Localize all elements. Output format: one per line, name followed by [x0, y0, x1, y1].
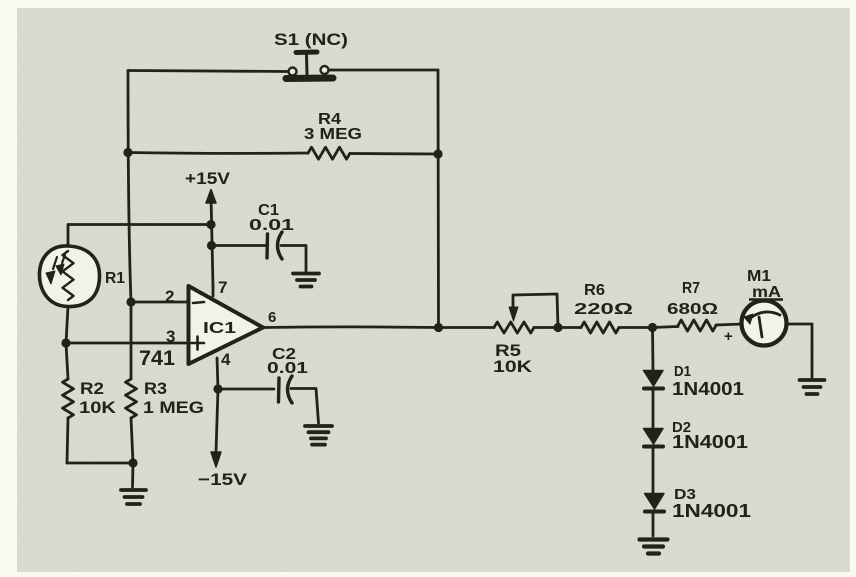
wire top loop right segment (S1 to right corner) — [329, 69, 438, 72]
label IC1 — [203, 320, 236, 337]
node output-feedback junction — [434, 323, 443, 332]
svg-text:+15V: +15V — [185, 169, 231, 188]
svg-text:1N4001: 1N4001 — [672, 432, 748, 452]
wire C2 branch — [218, 388, 274, 391]
resistor R6 220ohm zigzag — [581, 322, 619, 333]
label C1 value 0.01 — [249, 217, 294, 234]
ground meter M1 — [800, 380, 825, 394]
svg-text:1 MEG: 1 MEG — [143, 398, 204, 417]
pin label 6 — [268, 309, 276, 326]
svg-text:D1: D1 — [674, 363, 691, 380]
wire D2 to D3 — [652, 446, 655, 494]
label R7 value 680 ohm — [667, 301, 718, 318]
capacitor C2 symbol — [279, 376, 293, 403]
resistor R7 680ohm zigzag — [678, 320, 716, 331]
label R3 — [144, 379, 167, 398]
op-amp minus sign — [193, 302, 204, 303]
label C1 — [258, 202, 279, 219]
label R6 value 220 ohm — [574, 301, 633, 318]
wire pin 4 vertical to -15V — [216, 358, 218, 452]
wire op-amp output line — [263, 325, 494, 328]
photocell R1 body — [39, 246, 99, 307]
node C1 tap junction — [207, 241, 216, 250]
wire diode node to R7 — [652, 327, 678, 328]
svg-text:4: 4 — [221, 350, 231, 369]
photocell R1 internal element — [63, 251, 74, 300]
label C2 value 0.01 — [267, 360, 308, 377]
wire top loop left segment (S1 line left) — [128, 71, 288, 72]
node C2 tap junction — [213, 384, 222, 393]
potentiometer R5 wiper arm loop — [509, 294, 558, 328]
ground C2 — [305, 426, 332, 445]
label R3 value 1 MEG — [143, 398, 204, 417]
node diode branch junction — [648, 323, 657, 332]
capacitor C1 symbol — [267, 232, 282, 259]
svg-text:741: 741 — [139, 347, 175, 370]
pin label 4 — [221, 350, 231, 369]
wire right vertical (feedback down to output node) — [437, 70, 440, 328]
svg-text:−15V: −15V — [198, 470, 248, 489]
wire R1 bottom lead — [66, 307, 68, 344]
wire R5 to R6 — [534, 326, 581, 329]
label 3 MEG — [304, 126, 362, 143]
wire C2 to ground — [291, 389, 319, 424]
diode D1 1N4001 — [644, 371, 664, 389]
wire pin 2 input — [131, 301, 188, 304]
pin label 7 — [218, 278, 227, 297]
wire R1 top lead to +15V rail — [68, 225, 211, 247]
svg-text:R1: R1 — [105, 270, 125, 287]
label -15V — [198, 470, 248, 489]
wire R4 line right — [350, 152, 438, 155]
-15V supply arrow — [211, 452, 221, 467]
photocell R1 light arrow 1 — [46, 257, 57, 284]
wire diode chain top — [651, 328, 654, 372]
svg-text:7: 7 — [218, 278, 227, 297]
label D3 value 1N4001 — [672, 501, 751, 521]
photocell R1 light arrow 2 — [56, 255, 65, 275]
diode D2 1N4001 — [644, 429, 664, 447]
svg-text:220Ω: 220Ω — [574, 301, 633, 318]
wire left vertical (inverting input column) — [128, 71, 131, 380]
svg-text:R7: R7 — [682, 280, 700, 297]
node bottom rail junction — [128, 458, 137, 467]
label D3 — [674, 486, 696, 503]
node pin3-R1 junction — [61, 338, 70, 347]
label C2 — [272, 346, 296, 363]
label R7 — [682, 280, 700, 297]
svg-text:6: 6 — [268, 309, 276, 326]
svg-text:+: + — [724, 328, 733, 345]
svg-text:1N4001: 1N4001 — [672, 501, 751, 521]
resistor R4 3MEG zigzag — [308, 147, 350, 159]
label D1 — [674, 363, 691, 380]
wire C1 branch — [211, 244, 266, 247]
wire C1 to ground — [281, 246, 306, 272]
wire R6 to diode node — [619, 326, 652, 329]
label R2 value 10K — [79, 398, 117, 417]
resistor R3 1MEG zigzag — [126, 379, 137, 418]
label R5 value 10K — [493, 357, 533, 376]
svg-text:IC1: IC1 — [203, 320, 236, 337]
svg-text:3 MEG: 3 MEG — [304, 126, 362, 143]
svg-text:3: 3 — [166, 327, 175, 346]
node R1top-+15V junction — [206, 220, 215, 229]
wire R2 bottom lead — [67, 418, 68, 463]
wire R7 to meter — [716, 324, 742, 325]
potentiometer R5 10K zigzag — [494, 322, 534, 333]
+15V supply arrow — [206, 190, 216, 204]
resistor R2 10K zigzag — [63, 379, 74, 418]
wire +15V vertical — [211, 196, 213, 287]
label R6 — [584, 282, 605, 299]
label D2 value 1N4001 — [672, 432, 748, 452]
svg-text:R2: R2 — [80, 379, 104, 398]
ground C1 — [293, 274, 319, 287]
node pin2 junction — [126, 297, 135, 306]
label M1 — [747, 268, 771, 285]
switch S1 NC pushbutton — [286, 52, 333, 79]
svg-text:1N4001: 1N4001 — [672, 379, 744, 399]
label mA with underline — [749, 284, 783, 301]
wire R3 bottom lead — [131, 418, 133, 463]
wire meter to ground — [786, 324, 812, 377]
op-amp IC1 triangle — [189, 286, 264, 364]
label R1 — [105, 270, 125, 287]
pin label 3 — [166, 327, 175, 346]
wire pin 3 input — [66, 342, 188, 345]
wire bottom ground rail — [67, 462, 133, 465]
pin label 2 — [165, 287, 174, 306]
label S1 (NC) — [274, 30, 348, 49]
svg-text:10K: 10K — [493, 357, 533, 376]
node right-R4 junction — [433, 149, 442, 158]
svg-text:10K: 10K — [79, 398, 117, 417]
op-amp plus sign — [191, 337, 204, 350]
wire R2 top lead — [66, 343, 68, 379]
wire R4 line left — [128, 151, 308, 155]
label R2 — [80, 379, 104, 398]
label meter plus terminal — [724, 328, 733, 345]
meter M1 body — [742, 301, 787, 346]
ground below R3 rail — [121, 463, 146, 504]
svg-text:M1: M1 — [747, 268, 771, 285]
label R5 — [495, 341, 521, 360]
label D2 — [672, 419, 691, 436]
svg-text:R3: R3 — [144, 379, 167, 398]
label 741 — [139, 347, 175, 370]
node left-R4 junction — [123, 148, 132, 157]
wire pin 7 stub — [212, 287, 215, 296]
node R5 wiper junction — [553, 323, 562, 332]
svg-text:S1 (NC): S1 (NC) — [274, 30, 348, 49]
svg-text:680Ω: 680Ω — [667, 301, 718, 318]
svg-text:0.01: 0.01 — [267, 360, 308, 377]
svg-text:R6: R6 — [584, 282, 605, 299]
label +15V — [185, 169, 231, 188]
label D1 value 1N4001 — [672, 379, 744, 399]
label R4 — [318, 111, 341, 128]
wire D3 to ground — [652, 511, 655, 536]
diode D3 1N4001 — [645, 494, 665, 512]
ground diode chain — [640, 540, 668, 554]
svg-text:0.01: 0.01 — [249, 217, 294, 234]
wire D1 to D2 — [652, 388, 655, 429]
svg-text:2: 2 — [165, 287, 174, 306]
